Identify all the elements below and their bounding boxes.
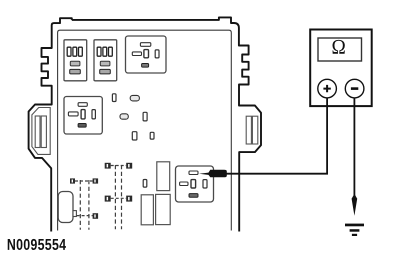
- power socket D bottom slot (shaded): [78, 124, 86, 128]
- right bay terminal rectangle 2: [252, 116, 257, 144]
- relay socket A lower slot 1: [70, 61, 80, 66]
- junction box outer outline left side with retention teeth and connector bay: [29, 18, 72, 231]
- ground symbol bar 1: [345, 224, 364, 227]
- relay socket B slot 3: [109, 47, 113, 56]
- dashed relay footprint A top link: [75, 180, 93, 182]
- relay socket A slot 1: [67, 47, 71, 56]
- small vertical slot 5: [132, 132, 137, 140]
- wire from negative terminal to ground: [353, 98, 355, 197]
- dashed relay footprint A terminal square 1: [70, 178, 75, 183]
- relay socket A lower slot 2: [70, 69, 81, 74]
- ohmmeter omega symbol: [333, 40, 345, 54]
- junction box inner outline (top and right): [58, 30, 232, 230]
- left bay terminal rectangle 2: [41, 116, 46, 148]
- dashed relay footprint B bottom link: [111, 197, 127, 199]
- power socket E left slot: [180, 182, 188, 186]
- relay socket A slot 2: [73, 47, 77, 56]
- relay socket B slot 1: [97, 47, 101, 56]
- relay body (bottom left, rounded): [58, 192, 73, 223]
- dashed relay footprint A left rail: [79, 180, 81, 230]
- power socket C body (top right): [126, 36, 167, 73]
- dashed relay footprint A bottom link: [77, 215, 93, 217]
- relay body right tab: [73, 211, 76, 217]
- power socket C right vertical slot: [155, 50, 159, 58]
- dashed relay footprint A terminal square 2: [93, 178, 99, 183]
- ground arrowhead: [352, 194, 358, 216]
- relay socket B lower slot 1: [100, 61, 110, 66]
- wire from positive terminal to socket E: [226, 98, 327, 174]
- relay socket B body: [94, 40, 117, 81]
- ohmmeter positive terminal: [318, 79, 337, 98]
- dashed relay footprint B terminal square 3: [105, 196, 111, 202]
- ground symbol bar 3: [352, 234, 357, 236]
- dashed relay footprint B top link: [111, 165, 127, 167]
- figure label N0095554: [8, 239, 66, 250]
- dashed relay footprint A right rail: [88, 180, 90, 230]
- small horizontal slot 2: [130, 95, 139, 101]
- power socket C top slot: [140, 43, 150, 47]
- power socket E center vertical slot: [191, 180, 196, 188]
- junction box outer outline: [72, 17, 261, 231]
- relay socket B lower slot 2: [100, 69, 111, 74]
- power socket C left slot: [132, 52, 141, 56]
- dashed relay footprint B terminal square 2: [126, 163, 132, 169]
- power socket C bottom slot (shaded): [142, 64, 149, 68]
- dashed relay footprint B terminal square 4: [126, 196, 132, 202]
- relay socket A slot 3: [79, 47, 83, 56]
- dashed relay footprint A terminal square 3: [93, 213, 99, 219]
- dashed relay footprint B left rail: [114, 165, 116, 229]
- power socket E bottom slot (shaded): [189, 194, 198, 198]
- probe arrowhead pointing at socket E terminal: [199, 170, 227, 178]
- right bay terminal rectangle 1: [246, 116, 251, 144]
- small horizontal slot 3: [120, 114, 128, 119]
- left bay terminal rectangle 1: [35, 116, 40, 148]
- power socket D left slot: [68, 112, 78, 116]
- relay socket A body: [64, 40, 87, 81]
- power socket E body (measurement target): [176, 166, 214, 202]
- power socket E top slot (probed terminal): [189, 171, 198, 175]
- small vertical slot 1: [112, 94, 116, 102]
- power socket E right vertical slot: [203, 180, 207, 188]
- fuse cavity tall rectangle: [157, 162, 170, 191]
- dashed relay footprint B right rail: [121, 165, 123, 229]
- power socket D body (middle left): [64, 97, 102, 135]
- power socket D right vertical slot: [92, 110, 95, 119]
- power socket D center vertical slot: [81, 110, 85, 119]
- ohmmeter negative terminal: [345, 79, 364, 98]
- dashed relay footprint B terminal square 1: [105, 163, 111, 169]
- ohmmeter U1 body: [310, 30, 372, 107]
- fuse cavity rectangle pair left: [141, 195, 153, 225]
- junction box left bay inner pocket: [32, 108, 50, 155]
- relay socket B slot 2: [103, 47, 107, 56]
- ground symbol bar 2: [350, 229, 360, 232]
- ohmmeter display window: [318, 38, 362, 61]
- small vertical slot 6: [150, 132, 154, 139]
- small vertical slot 4: [143, 112, 147, 121]
- power socket C center vertical slot: [144, 50, 149, 58]
- power socket D top slot: [78, 103, 87, 107]
- small vertical slot 7: [143, 180, 147, 188]
- fuse cavity rectangle pair right: [156, 194, 171, 224]
